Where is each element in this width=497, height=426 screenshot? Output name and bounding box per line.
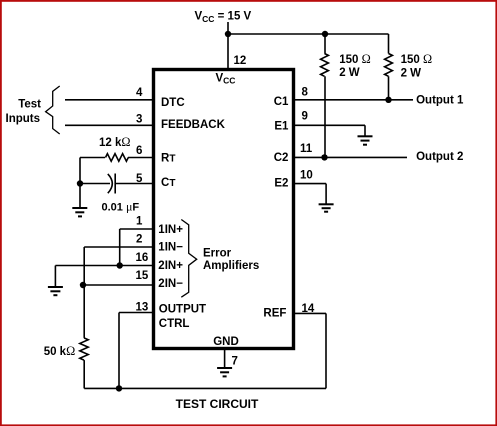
svg-text:6: 6 bbox=[136, 145, 142, 157]
svg-text:9: 9 bbox=[302, 111, 308, 123]
svg-text:1IN+: 1IN+ bbox=[158, 224, 183, 236]
svg-text:TEST CIRCUIT: TEST CIRCUIT bbox=[176, 397, 259, 411]
svg-text:CTRL: CTRL bbox=[159, 318, 190, 330]
svg-text:CT: CT bbox=[161, 177, 175, 189]
svg-text:2 W: 2 W bbox=[401, 67, 422, 79]
svg-text:C2: C2 bbox=[274, 152, 289, 164]
svg-text:7: 7 bbox=[232, 356, 238, 368]
svg-text:150 Ω: 150 Ω bbox=[401, 52, 433, 66]
svg-text:GND: GND bbox=[213, 336, 239, 348]
svg-text:Amplifiers: Amplifiers bbox=[203, 260, 259, 272]
svg-text:5: 5 bbox=[136, 173, 143, 185]
svg-text:14: 14 bbox=[302, 303, 315, 315]
svg-text:0.01 μF: 0.01 μF bbox=[102, 199, 140, 213]
svg-text:Output 1: Output 1 bbox=[416, 95, 464, 107]
svg-text:8: 8 bbox=[302, 87, 309, 99]
svg-text:C1: C1 bbox=[274, 96, 289, 108]
svg-text:RT: RT bbox=[161, 153, 175, 165]
svg-text:16: 16 bbox=[136, 252, 149, 264]
svg-text:150 Ω: 150 Ω bbox=[339, 52, 371, 66]
svg-text:13: 13 bbox=[136, 302, 149, 314]
svg-text:1: 1 bbox=[136, 216, 143, 228]
svg-text:1IN−: 1IN− bbox=[158, 242, 183, 254]
svg-text:Error: Error bbox=[203, 248, 232, 260]
svg-text:2: 2 bbox=[136, 234, 142, 246]
svg-text:15: 15 bbox=[136, 270, 149, 282]
svg-text:Output 2: Output 2 bbox=[416, 151, 463, 163]
svg-text:E2: E2 bbox=[274, 177, 288, 189]
svg-text:REF: REF bbox=[263, 308, 286, 320]
svg-text:E1: E1 bbox=[274, 121, 289, 133]
svg-text:Inputs: Inputs bbox=[6, 113, 41, 125]
svg-text:4: 4 bbox=[136, 87, 143, 99]
svg-text:Test: Test bbox=[18, 98, 41, 110]
svg-text:2 W: 2 W bbox=[339, 67, 360, 79]
svg-text:12: 12 bbox=[234, 55, 247, 67]
svg-text:FEEDBACK: FEEDBACK bbox=[161, 119, 226, 131]
svg-text:DTC: DTC bbox=[161, 97, 185, 109]
svg-text:11: 11 bbox=[300, 143, 313, 155]
svg-text:3: 3 bbox=[136, 114, 142, 126]
svg-text:50 kΩ: 50 kΩ bbox=[44, 344, 76, 358]
svg-text:2IN+: 2IN+ bbox=[158, 260, 183, 272]
svg-text:2IN−: 2IN− bbox=[158, 278, 183, 290]
svg-text:10: 10 bbox=[300, 170, 313, 182]
svg-text:12 kΩ: 12 kΩ bbox=[99, 135, 131, 149]
svg-text:OUTPUT: OUTPUT bbox=[159, 304, 206, 316]
